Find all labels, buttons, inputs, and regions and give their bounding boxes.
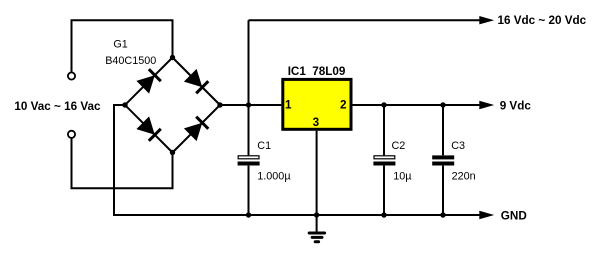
wire bridge edge L-B <box>125 105 173 153</box>
capacitor C1 plates <box>238 156 259 159</box>
node plus/C1 junction <box>246 102 251 107</box>
terminal top <box>68 72 75 79</box>
diode D1 (left-top) <box>136 69 160 93</box>
svg-text:220n: 220n <box>452 171 476 183</box>
diode D2 (top-right) <box>184 69 208 93</box>
svg-text:9 Vdc: 9 Vdc <box>500 99 532 112</box>
svg-text:1: 1 <box>285 98 292 111</box>
wire above C2 <box>383 105 385 155</box>
svg-text:B40C1500: B40C1500 <box>105 55 156 67</box>
svg-text:3: 3 <box>313 116 320 129</box>
svg-text:G1: G1 <box>113 39 127 51</box>
node C2 top junction <box>381 102 386 107</box>
arrow 16Vdc <box>479 16 494 24</box>
node C1 bottom junction <box>246 212 251 217</box>
svg-text:78L09: 78L09 <box>312 65 346 78</box>
wire bridge edge T-R <box>173 58 221 106</box>
node C3 bottom junction <box>440 212 445 217</box>
node left vertex <box>122 102 127 107</box>
svg-text:GND: GND <box>501 210 527 223</box>
node ground junction <box>314 212 319 217</box>
wire top rail to 16Vdc arrow <box>249 19 481 21</box>
wire above C3 <box>442 105 444 155</box>
node bottom vertex <box>170 150 175 155</box>
wire IC pin 3 to GND rail <box>316 131 318 215</box>
node C3 top junction <box>440 102 445 107</box>
wire ground stub <box>316 215 318 232</box>
svg-text:C3: C3 <box>451 140 465 152</box>
svg-text:16 Vdc ~ 20 Vdc: 16 Vdc ~ 20 Vdc <box>498 14 587 27</box>
wire minus rail: left vertex down to GND rail <box>114 105 481 215</box>
svg-text:10µ: 10µ <box>393 171 411 183</box>
node top vertex <box>170 55 175 60</box>
wire plus: right vertex to IC pin 1 <box>220 104 281 106</box>
wire IC pin 2 to 9Vdc arrow <box>352 104 480 106</box>
wire below C3 <box>442 166 444 215</box>
wire AC2: bottom terminal to bridge bottom vertex <box>72 138 173 188</box>
wire AC1: top terminal to bridge top vertex <box>72 20 173 72</box>
capacitor C2 plates <box>374 156 395 159</box>
capacitor C3 plates <box>432 155 454 159</box>
arrow 9Vdc <box>479 101 494 109</box>
svg-text:10 Vac ~ 16 Vac: 10 Vac ~ 16 Vac <box>14 100 101 113</box>
svg-text:C1: C1 <box>257 140 271 152</box>
wire below C1 <box>248 166 250 215</box>
svg-text:C2: C2 <box>392 140 406 152</box>
wire plus vertical above C1 <box>248 20 250 155</box>
wire below C2 <box>383 166 385 215</box>
svg-text:1.000µ: 1.000µ <box>257 171 290 183</box>
diode D3 (left-bottom) <box>136 116 160 140</box>
svg-text:2: 2 <box>340 98 347 111</box>
svg-text:IC1: IC1 <box>288 65 307 78</box>
node C2 bottom junction <box>381 212 386 217</box>
arrow GND <box>479 211 494 219</box>
diode D4 (bottom-right) <box>184 117 208 141</box>
wire bridge edge B-R <box>173 105 221 153</box>
node right vertex <box>217 102 222 107</box>
terminal bottom <box>68 131 75 138</box>
op IC1 78L09 regulator box <box>283 79 351 129</box>
wire bridge edge L-T <box>125 58 173 106</box>
ground symbol <box>309 233 324 242</box>
